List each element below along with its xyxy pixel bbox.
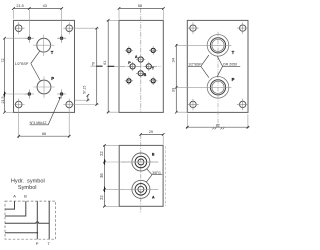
svg-text:T: T [48, 241, 51, 246]
port T big [207, 35, 229, 57]
junction dot [36, 232, 38, 234]
svg-text:T: T [232, 50, 235, 55]
svg-text:43: 43 [43, 4, 47, 8]
bottom dimension 82 [187, 114, 248, 129]
bottom dimension 66 [19, 108, 69, 139]
plate outline view3 [187, 20, 248, 112]
wire P horizontal [5, 232, 37, 234]
port T centerlines [33, 35, 54, 56]
svg-text:82: 82 [216, 123, 220, 127]
top dimension 29 [141, 133, 164, 135]
svg-text:29: 29 [149, 130, 153, 134]
left dimension 34 / 33 [175, 44, 177, 112]
svg-text:B: B [24, 193, 27, 198]
mini dimension 57,15 [75, 99, 90, 101]
svg-text:A: A [13, 193, 16, 198]
wire T vertical [48, 201, 50, 239]
svg-text:T: T [152, 67, 155, 71]
top dimension 21.5 / 43 [14, 8, 62, 10]
port B [132, 153, 150, 171]
svg-text:57,15: 57,15 [82, 86, 86, 94]
corner holes [190, 25, 246, 108]
svg-text:P: P [51, 76, 54, 81]
port P [130, 64, 135, 69]
svg-text:A: A [152, 196, 155, 200]
plate outline view4 [119, 145, 163, 206]
svg-text:34: 34 [171, 57, 176, 62]
vertical centerline [140, 134, 142, 212]
plate outline view1 [14, 20, 75, 112]
svg-text:21.5: 21.5 [1, 97, 5, 104]
hidden dashed line right [164, 146, 166, 206]
svg-text:P: P [36, 241, 39, 246]
top dimension 58 [119, 7, 163, 9]
svg-text:1/2"BSP: 1/2"BSP [188, 62, 202, 66]
wire T horizontal with hop [5, 222, 49, 223]
svg-text:B: B [144, 73, 147, 77]
wire A [5, 201, 15, 209]
svg-text:A: A [135, 55, 138, 59]
M6 dot crosshairs [25, 34, 66, 99]
svg-text:21.5: 21.5 [16, 4, 23, 8]
port B [138, 71, 143, 76]
svg-text:58: 58 [138, 4, 142, 8]
svg-text:OR 2050: OR 2050 [223, 62, 237, 66]
svg-text:P: P [232, 77, 235, 82]
left dimension 22/36/22 [104, 145, 106, 206]
svg-text:T: T [51, 50, 54, 55]
port A [138, 57, 143, 62]
left dimension 72 / 21.5 [4, 38, 6, 112]
svg-text:N°4 M6x12: N°4 M6x12 [30, 121, 47, 125]
svg-text:72: 72 [1, 59, 5, 63]
port A [132, 180, 150, 198]
svg-text:Symbol: Symbol [18, 185, 37, 191]
left dimension [107, 20, 109, 112]
svg-text:1/2"BSP: 1/2"BSP [15, 62, 29, 66]
svg-text:Hydr. symbol: Hydr. symbol [11, 178, 45, 184]
centerlines [217, 32, 219, 127]
mounting holes [127, 48, 155, 83]
vertical centerline [140, 8, 142, 112]
port P circle [37, 80, 51, 94]
dashed box [5, 201, 56, 239]
right dimension 70 [96, 28, 98, 104]
port T [146, 64, 151, 69]
svg-text:70: 70 [92, 62, 96, 66]
svg-text:22: 22 [99, 151, 104, 156]
wire P vertical [36, 201, 38, 239]
plate outline view2 [119, 20, 163, 112]
port P big [207, 77, 229, 99]
svg-text:B: B [152, 153, 155, 157]
M6 threaded dots [28, 37, 64, 96]
horizontal centerline [121, 65, 161, 67]
svg-text:66: 66 [42, 132, 46, 136]
svg-text:33: 33 [171, 87, 176, 92]
svg-text:61: 61 [103, 61, 107, 65]
port T circle [37, 38, 51, 52]
svg-text:22: 22 [99, 195, 104, 200]
svg-text:36: 36 [99, 173, 104, 178]
corner hole crosshairs [13, 22, 75, 110]
corner holes (4x) view1 [15, 25, 72, 108]
port P centerlines [34, 77, 55, 98]
wire B [5, 201, 26, 216]
